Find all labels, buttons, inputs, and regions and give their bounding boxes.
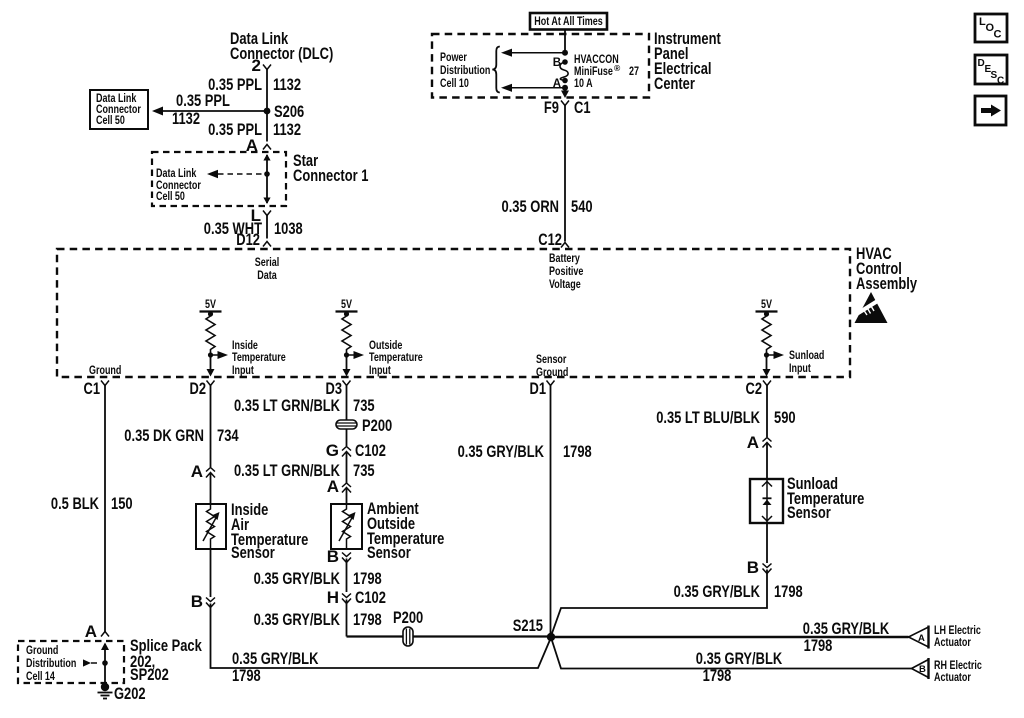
ground G202	[98, 683, 146, 703]
node in splice pack	[102, 660, 108, 666]
wire 0.35 GRY/BLK 1798 (to C102 H)	[346, 559, 348, 593]
fuse HVACCON MiniFuse 27 10A	[553, 57, 568, 90]
svg-text:C1: C1	[574, 98, 591, 117]
wire inside star connector	[263, 154, 270, 204]
label HVACCON MiniFuse 27 10A	[574, 54, 639, 90]
node above fuse	[562, 50, 568, 56]
label Outside Temperature Input	[369, 340, 423, 377]
LH Electric Actuator	[909, 625, 982, 649]
wire 0.35 LT BLU/BLK 590	[766, 390, 768, 437]
svg-text:150: 150	[111, 494, 133, 513]
label Inside Temperature Input	[232, 340, 286, 377]
label Instrument Panel Electrical Center	[654, 29, 721, 93]
svg-text:Temperature: Temperature	[232, 352, 286, 364]
svg-text:Connector (DLC): Connector (DLC)	[230, 44, 333, 63]
svg-text:B: B	[747, 558, 759, 577]
wire Hot At All Times to fuse node	[564, 30, 566, 53]
box Splice Pack SP202 (dashed)	[18, 641, 124, 683]
svg-text:27: 27	[629, 66, 639, 78]
sensor box Inside Air Temperature Sensor	[196, 504, 226, 549]
brace for Power Distribution Cell 10	[492, 47, 500, 93]
svg-text:0.35 ORN: 0.35 ORN	[502, 197, 560, 216]
svg-text:Sensor: Sensor	[536, 354, 567, 366]
svg-text:Hot At All Times: Hot At All Times	[534, 16, 602, 28]
svg-text:B: B	[191, 592, 203, 611]
svg-text:Cell 50: Cell 50	[156, 191, 185, 203]
svg-text:1798: 1798	[353, 610, 382, 629]
connector B (ambient sensor)	[327, 547, 351, 566]
svg-text:Sensor: Sensor	[231, 543, 275, 562]
svg-text:Ground: Ground	[26, 645, 58, 657]
svg-text:Assembly: Assembly	[856, 274, 917, 293]
label Serial Data	[255, 257, 279, 282]
svg-text:A: A	[747, 433, 759, 452]
svg-text:1798: 1798	[804, 636, 833, 655]
5V pull-up for Inside Temperature Input	[200, 299, 229, 377]
svg-text:G: G	[326, 441, 339, 460]
svg-text:5V: 5V	[205, 299, 216, 311]
svg-text:Voltage: Voltage	[549, 279, 581, 291]
svg-text:1132: 1132	[172, 109, 200, 128]
connector pin D2 (HVAC)	[190, 379, 215, 398]
connector pin D3 (HVAC)	[326, 379, 351, 398]
wire 0.35 LT GRN/BLK 735 (upper)	[346, 390, 348, 420]
sensor box Sunload Temperature Sensor	[750, 479, 783, 523]
svg-text:G202: G202	[114, 684, 146, 703]
svg-text:LH Electric: LH Electric	[934, 625, 981, 637]
svg-text:Connector 1: Connector 1	[293, 166, 368, 185]
wire 0.35 WHT 1038	[266, 216, 268, 239]
wire 0.5 BLK 150	[104, 390, 106, 632]
label Power Distribution Cell 10	[440, 52, 490, 90]
svg-text:Distribution: Distribution	[440, 65, 490, 77]
svg-text:Ground: Ground	[89, 365, 121, 377]
svg-text:C1: C1	[84, 379, 101, 398]
svg-text:SP202: SP202	[130, 665, 169, 684]
svg-text:1798: 1798	[232, 666, 261, 685]
svg-text:RH Electric: RH Electric	[934, 660, 982, 672]
svg-text:0.35 GRY/BLK: 0.35 GRY/BLK	[254, 610, 341, 629]
box Star Connector 1 (dashed)	[152, 152, 286, 206]
connector pin A (into Splice Pack)	[85, 622, 109, 641]
svg-text:H: H	[327, 588, 339, 607]
svg-text:A: A	[327, 477, 339, 496]
wire to C102	[346, 429, 348, 446]
node on star connector wire	[264, 171, 270, 177]
svg-text:0.35 GRY/BLK: 0.35 GRY/BLK	[674, 582, 761, 601]
svg-text:10 A: 10 A	[574, 78, 593, 90]
box Hot At All Times	[530, 13, 607, 30]
label Sunload Temperature Sensor	[787, 474, 864, 522]
icon box LOC	[975, 14, 1007, 42]
svg-text:Cell 50: Cell 50	[96, 115, 125, 127]
svg-text:F9: F9	[544, 98, 559, 117]
svg-text:S215: S215	[513, 616, 543, 635]
svg-text:Data: Data	[257, 270, 277, 282]
grommet P200	[336, 416, 392, 435]
connector pin C2 (HVAC)	[746, 379, 772, 398]
svg-text:0.35 LT GRN/BLK: 0.35 LT GRN/BLK	[234, 396, 341, 415]
svg-text:Outside: Outside	[369, 340, 402, 352]
sensor box Ambient Outside Temperature Sensor	[331, 504, 362, 549]
wire below sunload sensor	[766, 523, 768, 563]
svg-text:Distribution: Distribution	[26, 658, 76, 670]
wire 0.35 DK GRN 734	[210, 390, 212, 467]
feed arrow A (to Power Distribution)	[501, 84, 565, 92]
svg-text:C102: C102	[355, 441, 386, 460]
svg-text:1132: 1132	[273, 120, 301, 139]
svg-text:MiniFuse: MiniFuse	[574, 66, 613, 78]
dashed reference arrow to Data Link Connector Cell 50	[156, 168, 264, 203]
svg-text:Sunload: Sunload	[789, 350, 824, 362]
connector G C102	[326, 441, 386, 465]
svg-text:Input: Input	[232, 365, 254, 377]
svg-text:®: ®	[614, 63, 621, 73]
wire 0.35 LT GRN/BLK 735 (lower)	[346, 465, 348, 483]
label Splice Pack 202, SP202	[130, 636, 202, 684]
wire 0.35 GRY/BLK 1798 (D1 to S215)	[550, 390, 552, 637]
splice S206	[264, 108, 271, 115]
box Instrument Panel Electrical Center (dashed)	[432, 34, 649, 98]
wire 0.35 PPL 1132 (S206 to star connector pin A)	[266, 111, 268, 142]
svg-text:Temperature: Temperature	[369, 352, 423, 364]
svg-text:Cell 14: Cell 14	[26, 671, 55, 683]
label Sensor Ground	[536, 354, 568, 379]
svg-text:2: 2	[252, 56, 261, 75]
svg-text:5V: 5V	[761, 299, 772, 311]
feed arrow B (to Power Distribution)	[501, 49, 565, 57]
svg-text:735: 735	[353, 396, 375, 415]
svg-text:540: 540	[571, 197, 593, 216]
svg-text:1798: 1798	[353, 569, 382, 588]
svg-text:A: A	[85, 622, 97, 641]
connector P200 (in-line)	[393, 608, 423, 646]
svg-text:A: A	[918, 633, 925, 644]
svg-text:734: 734	[217, 426, 239, 445]
svg-text:Center: Center	[654, 74, 695, 93]
svg-text:1798: 1798	[774, 582, 803, 601]
connector pin C1 (HVAC)	[84, 379, 110, 398]
svg-text:5V: 5V	[341, 299, 352, 311]
svg-text:D12: D12	[236, 230, 260, 249]
svg-text:Inside: Inside	[232, 340, 258, 352]
connector pin C12	[538, 230, 569, 249]
wire 0.35 PPL 1132 (S206 to Data Link Connector Cell 50)	[152, 91, 267, 128]
svg-text:Cell 10: Cell 10	[440, 78, 469, 90]
svg-text:Sensor: Sensor	[367, 543, 411, 562]
icon box DESC	[975, 55, 1007, 87]
svg-text:Positive: Positive	[549, 266, 583, 278]
reference arrow Ground Distribution	[26, 645, 97, 683]
svg-text:Input: Input	[369, 365, 391, 377]
svg-text:B: B	[327, 547, 339, 566]
svg-text:P200: P200	[362, 416, 392, 435]
svg-text:Actuator: Actuator	[934, 672, 971, 684]
svg-text:0.35 LT GRN/BLK: 0.35 LT GRN/BLK	[234, 461, 341, 480]
splice S215	[513, 616, 555, 641]
label HVAC Control Assembly	[856, 244, 917, 293]
wire 0.35 GRY/BLK 1798 (S215 to RH actuator)	[551, 638, 912, 686]
connector A (ambient sensor)	[327, 477, 351, 504]
svg-text:Serial: Serial	[255, 257, 279, 269]
label Ambient Outside Temperature Sensor	[367, 499, 444, 562]
box Data Link Connector Cell 50	[90, 90, 148, 129]
5V pull-up for Sunload Input	[756, 299, 785, 377]
svg-text:C2: C2	[746, 379, 763, 398]
svg-text:0.5 BLK: 0.5 BLK	[51, 494, 100, 513]
wire 0.35 ORN 540	[564, 110, 566, 242]
svg-text:D2: D2	[190, 379, 207, 398]
connector H C102	[327, 588, 386, 607]
label Data Link Connector (DLC)	[230, 29, 333, 63]
label Sunload Input	[789, 350, 824, 375]
svg-text:B: B	[919, 664, 926, 675]
svg-text:D1: D1	[530, 379, 547, 398]
svg-text:735: 735	[353, 461, 375, 480]
wire 0.35 PPL 1132 (DLC pin 2 to S206)	[266, 70, 268, 112]
wire inside splice pack	[101, 643, 109, 687]
connector A (sunload sensor)	[747, 433, 772, 479]
label Inside Air Temperature Sensor	[231, 500, 308, 562]
ESD sensitivity symbol	[855, 292, 888, 323]
svg-text:Power: Power	[440, 52, 467, 64]
svg-text:Data Link: Data Link	[156, 168, 197, 180]
svg-text:Battery: Battery	[549, 253, 580, 265]
svg-text:P200: P200	[393, 608, 423, 627]
node below fuse	[562, 85, 568, 91]
svg-text:HVACCON: HVACCON	[574, 54, 619, 66]
svg-text:Actuator: Actuator	[934, 637, 971, 649]
svg-text:0.35 DK GRN: 0.35 DK GRN	[124, 426, 204, 445]
connector pin L (star connector to HVAC)	[251, 206, 271, 225]
RH Electric Actuator	[912, 658, 983, 684]
wire 0.35 GRY/BLK 1798 (D2 to S215 rail)	[211, 604, 552, 686]
svg-text:590: 590	[774, 408, 796, 427]
wire 0.35 GRY/BLK 1798 (to S215)	[254, 600, 551, 637]
connector pin A (into Star Connector 1)	[246, 136, 271, 155]
svg-text:Ground: Ground	[536, 367, 568, 379]
svg-text:C: C	[994, 29, 1002, 41]
connector pin D1 (HVAC)	[530, 379, 555, 398]
svg-text:C12: C12	[538, 230, 562, 249]
svg-text:C: C	[997, 76, 1004, 87]
svg-text:S206: S206	[274, 102, 304, 121]
svg-text:B: B	[553, 57, 561, 69]
icon box forward arrow	[975, 96, 1006, 125]
5V pull-up for Outside Temperature Input	[336, 299, 365, 377]
svg-text:0.35 GRY/BLK: 0.35 GRY/BLK	[458, 442, 545, 461]
label Star Connector 1	[293, 151, 368, 185]
box HVAC Control Assembly (dashed)	[57, 249, 850, 377]
connector pin D12	[236, 230, 271, 249]
svg-text:0.35 GRY/BLK: 0.35 GRY/BLK	[254, 569, 341, 588]
pin 2 of DLC	[252, 56, 271, 75]
wire below sensor	[210, 549, 212, 597]
svg-text:0.35 PPL: 0.35 PPL	[176, 91, 230, 110]
wire 0.35 GRY/BLK 1798 (sunload to S215)	[551, 570, 803, 637]
connector B (inside air temp sensor)	[191, 592, 215, 611]
arrow out of IP center	[561, 88, 569, 98]
svg-text:1798: 1798	[563, 442, 592, 461]
svg-text:1038: 1038	[274, 219, 303, 238]
svg-text:Sensor: Sensor	[787, 503, 831, 522]
wire 0.35 GRY/BLK 1798 (S215 to LH actuator)	[551, 619, 909, 655]
connector pins F9 / C1	[544, 98, 591, 117]
svg-text:C102: C102	[355, 588, 386, 607]
svg-text:A: A	[191, 462, 203, 481]
svg-text:1132: 1132	[273, 75, 301, 94]
svg-text:Input: Input	[789, 363, 811, 375]
svg-text:1798: 1798	[703, 666, 732, 685]
svg-text:0.35 LT BLU/BLK: 0.35 LT BLU/BLK	[656, 408, 760, 427]
label Battery Positive Voltage	[549, 253, 583, 291]
connector A (inside air temp sensor)	[191, 462, 215, 504]
connector B (sunload sensor)	[747, 558, 772, 577]
